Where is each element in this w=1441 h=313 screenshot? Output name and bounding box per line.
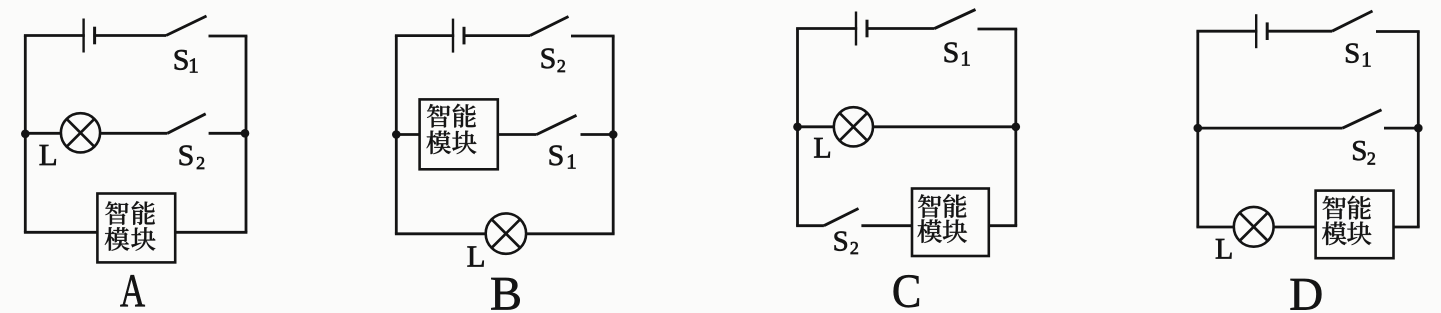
wire D top (battery to switch S1 pivot) [1266,30,1332,33]
wire D middle (node to S2 pivot) [1198,127,1343,130]
wire D bottom-left (rail to lamp) [1196,226,1234,229]
battery C [856,12,867,46]
wire A bottom-left (rail to module) [24,231,98,234]
wire C bottom-right (module to rail) [989,224,1017,227]
lamp L (A) (circle with X) [61,113,100,152]
wire A middle-right (S2 contact to node) [209,132,246,135]
node (junction dot) C left [793,123,802,132]
label S1 (D) [1344,38,1372,72]
svg-text:S: S [943,36,960,69]
switch blade S2 (C) [824,209,859,226]
svg-text:B: B [490,268,522,313]
node (junction dot) C right [1012,123,1021,132]
wire B middle (module to S1 pivot) [498,133,537,136]
wire A bottom-right (module to rail) [175,231,247,234]
node (junction dot) A right [241,129,250,138]
lamp L (B) (circle with X) [486,213,526,253]
battery B [453,19,464,53]
svg-text:1: 1 [960,47,971,71]
battery D [1256,14,1267,48]
svg-text:2: 2 [850,238,859,258]
smart module box D ("智能模块") [1316,191,1394,259]
lamp L (C) (circle with X) [834,107,873,146]
svg-text:S: S [833,225,849,257]
wire D top-right (S1 contact to rail) [1376,30,1420,33]
svg-text:2: 2 [557,56,566,76]
switch blade S1 (D) [1332,11,1373,31]
node (junction dot) D left [1194,124,1203,133]
svg-text:1: 1 [566,149,577,173]
switch blade S1 (C) [935,10,976,29]
svg-text:1: 1 [1361,47,1372,71]
node (junction dot) D right [1414,124,1423,133]
switch blade S1 (A) [166,16,207,36]
switch blade S1 (B) [537,115,577,134]
wire D middle-right (S2 contact to node) [1384,127,1418,130]
svg-text:C: C [892,264,921,313]
switch blade S2 (D) [1343,110,1382,128]
wire B right rail [612,36,615,234]
wire B top (battery to switch S2 pivot) [463,34,530,37]
svg-text:S: S [1351,135,1367,167]
svg-text:S: S [548,139,565,172]
battery A [84,19,95,53]
wire B top-left (rail to battery) [395,34,454,37]
svg-text:L: L [1215,233,1233,266]
node (junction dot) B left [392,130,401,139]
svg-text:L: L [813,132,831,165]
wire A middle-left (node to lamp) [25,132,62,135]
wire B middle-right (S1 contact to node) [581,133,614,136]
svg-text:S: S [178,139,195,172]
label S1 (A) [173,43,199,77]
wire C left rail [796,29,799,226]
wire D bottom-right (module to rail) [1394,226,1420,229]
wire C top-left (rail to battery) [796,27,857,30]
wire B top-right (S2 contact to rail) [571,35,615,38]
wire B bottom-left (rail to lamp) [395,232,487,235]
smart module box B ("智能模块") [420,99,498,169]
wire D left rail [1196,31,1199,227]
wire D top-left (rail to battery) [1196,30,1257,33]
svg-text:S: S [173,43,190,76]
wire B left rail [395,36,398,234]
wire C bottom (S2 contact to module) [861,224,912,227]
label S2 (C) [833,225,859,258]
svg-text:S: S [1344,38,1360,70]
wire A top (battery to switch S1 pivot) [93,34,166,37]
label S1 (C) [943,36,971,70]
wire C middle-right (lamp to node) [873,125,1016,128]
wire B middle-left (node to module) [396,133,419,136]
wire D bottom (lamp to module) [1273,226,1315,229]
switch blade S2 (B) [530,17,569,36]
wire A right rail [245,36,248,232]
wire C bottom-left (rail to S2 pivot) [796,224,824,227]
svg-text:1: 1 [188,53,199,77]
switch blade S2 (A) [167,114,205,134]
wire B bottom-right (lamp to rail) [526,232,615,235]
wire A middle (lamp to S2 pivot) [100,132,168,135]
svg-text:L: L [467,239,486,274]
svg-text:A: A [120,264,145,313]
label S2 (A) [178,139,206,173]
lamp L (D) (circle with X) [1234,207,1274,247]
smart module box C ("智能模块") [912,189,989,257]
svg-text:2: 2 [1367,149,1376,169]
wire C middle-left (node to lamp) [798,125,835,128]
wire C right rail [1014,29,1017,226]
svg-text:2: 2 [196,153,205,173]
svg-text:D: D [1289,268,1323,313]
label S1 (B) [548,139,577,173]
label S2 (B) [540,42,566,76]
svg-text:S: S [540,42,557,75]
wire A top-right (S1 contact to rail) [209,35,248,38]
node (junction dot) B right [609,130,618,139]
node (junction dot) A left [21,130,30,139]
label S2 (D) [1351,135,1376,169]
wire C top-right (S1 contact to rail) [978,28,1018,31]
wire A left rail [24,36,27,233]
svg-text:L: L [39,137,58,172]
wire D right rail [1417,32,1420,228]
smart module box A ("智能模块") [97,194,175,263]
wire A top-left (rail to battery) [24,34,85,37]
wire C top (battery to switch S1 pivot) [866,27,935,30]
